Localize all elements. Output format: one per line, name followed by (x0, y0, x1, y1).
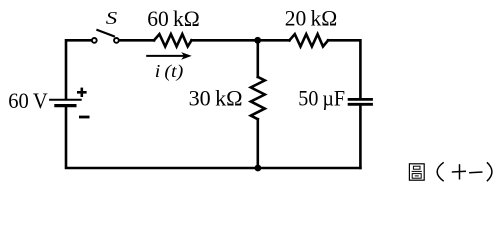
svg-text:60 kΩ: 60 kΩ (147, 6, 200, 31)
capacitor C1 top plate (348, 98, 373, 101)
svg-text:i (t): i (t) (155, 61, 184, 81)
wire: 30k resistor down to bottom node B (256, 119, 259, 168)
glyph ） (487, 162, 492, 181)
battery V1 long plate (49, 99, 82, 101)
wire top: 60k resistor to node A (192, 39, 258, 42)
wire top: switch right terminal to 60k resistor (120, 39, 154, 42)
svg-text:60 V: 60 V (8, 88, 48, 113)
capacitor C1 bottom plate (348, 103, 373, 106)
current arrow i(t) (146, 52, 192, 60)
battery minus sign (79, 116, 90, 119)
resistor R1 60kΩ (154, 34, 192, 46)
switch S blade (96, 30, 115, 37)
wire top: node A to 20k resistor (258, 39, 290, 42)
svg-text:20 kΩ: 20 kΩ (285, 5, 338, 30)
svg-text:S: S (106, 8, 117, 28)
wire top-left: battery positive to switch left terminal (66, 40, 91, 98)
svg-text:50 µF: 50 µF (298, 85, 345, 110)
glyph 十 (452, 164, 466, 179)
wire: capacitor bottom lead (359, 106, 362, 168)
glyph （ (437, 162, 444, 181)
wire: node A down to 30k resistor (256, 40, 259, 77)
wire bottom rail (66, 107, 360, 168)
wire top-right corner down to capacitor (328, 40, 360, 98)
battery V1 short thick plate (54, 104, 76, 107)
node A junction dot (254, 37, 261, 44)
node B junction dot (255, 165, 262, 172)
glyph 一 (469, 171, 482, 174)
switch S left contact circle (92, 38, 97, 43)
resistor R3 30kΩ vertical (251, 77, 265, 119)
caption 圖（十一） drawn glyphs (409, 162, 492, 181)
glyph 圖 (409, 164, 424, 180)
battery plus sign (77, 88, 87, 97)
svg-text:30 kΩ: 30 kΩ (189, 86, 243, 111)
switch S right contact circle (114, 38, 119, 43)
resistor R2 20kΩ (289, 34, 328, 46)
